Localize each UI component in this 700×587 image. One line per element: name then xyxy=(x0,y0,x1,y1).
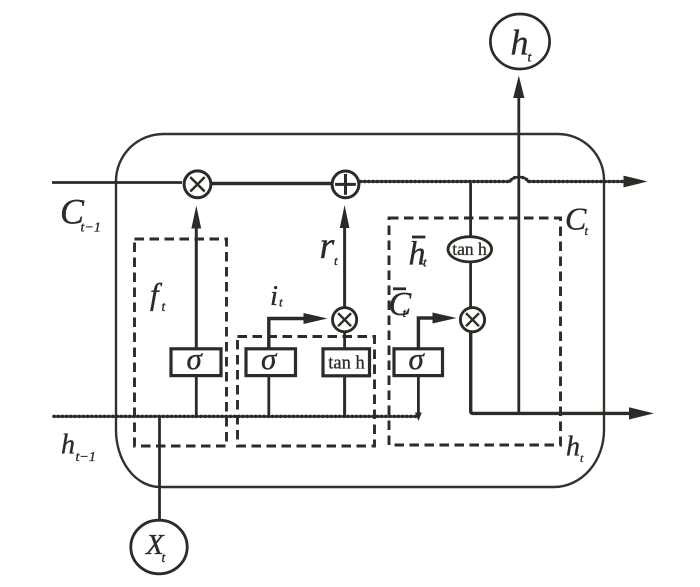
svg-text:σ: σ xyxy=(409,341,426,376)
svg-text:t: t xyxy=(279,295,283,310)
svg-text:i: i xyxy=(270,280,278,312)
svg-text:r: r xyxy=(320,225,335,267)
svg-text:tan h: tan h xyxy=(452,239,487,259)
svg-text:σ: σ xyxy=(187,341,204,376)
svg-text:h: h xyxy=(566,432,580,463)
svg-text:t−1: t−1 xyxy=(76,450,96,465)
svg-text:t: t xyxy=(423,255,427,270)
svg-text:t: t xyxy=(580,451,584,465)
svg-text:C: C xyxy=(389,286,412,323)
svg-text:h: h xyxy=(61,430,75,461)
svg-text:t−1: t−1 xyxy=(81,221,101,236)
svg-text:t: t xyxy=(162,299,167,314)
svg-text:t: t xyxy=(585,224,589,238)
svg-text:σ: σ xyxy=(261,341,278,376)
svg-text:tan h: tan h xyxy=(328,354,364,374)
svg-text:t: t xyxy=(334,253,338,268)
svg-text:t: t xyxy=(403,305,407,320)
svg-text:h: h xyxy=(511,23,529,63)
